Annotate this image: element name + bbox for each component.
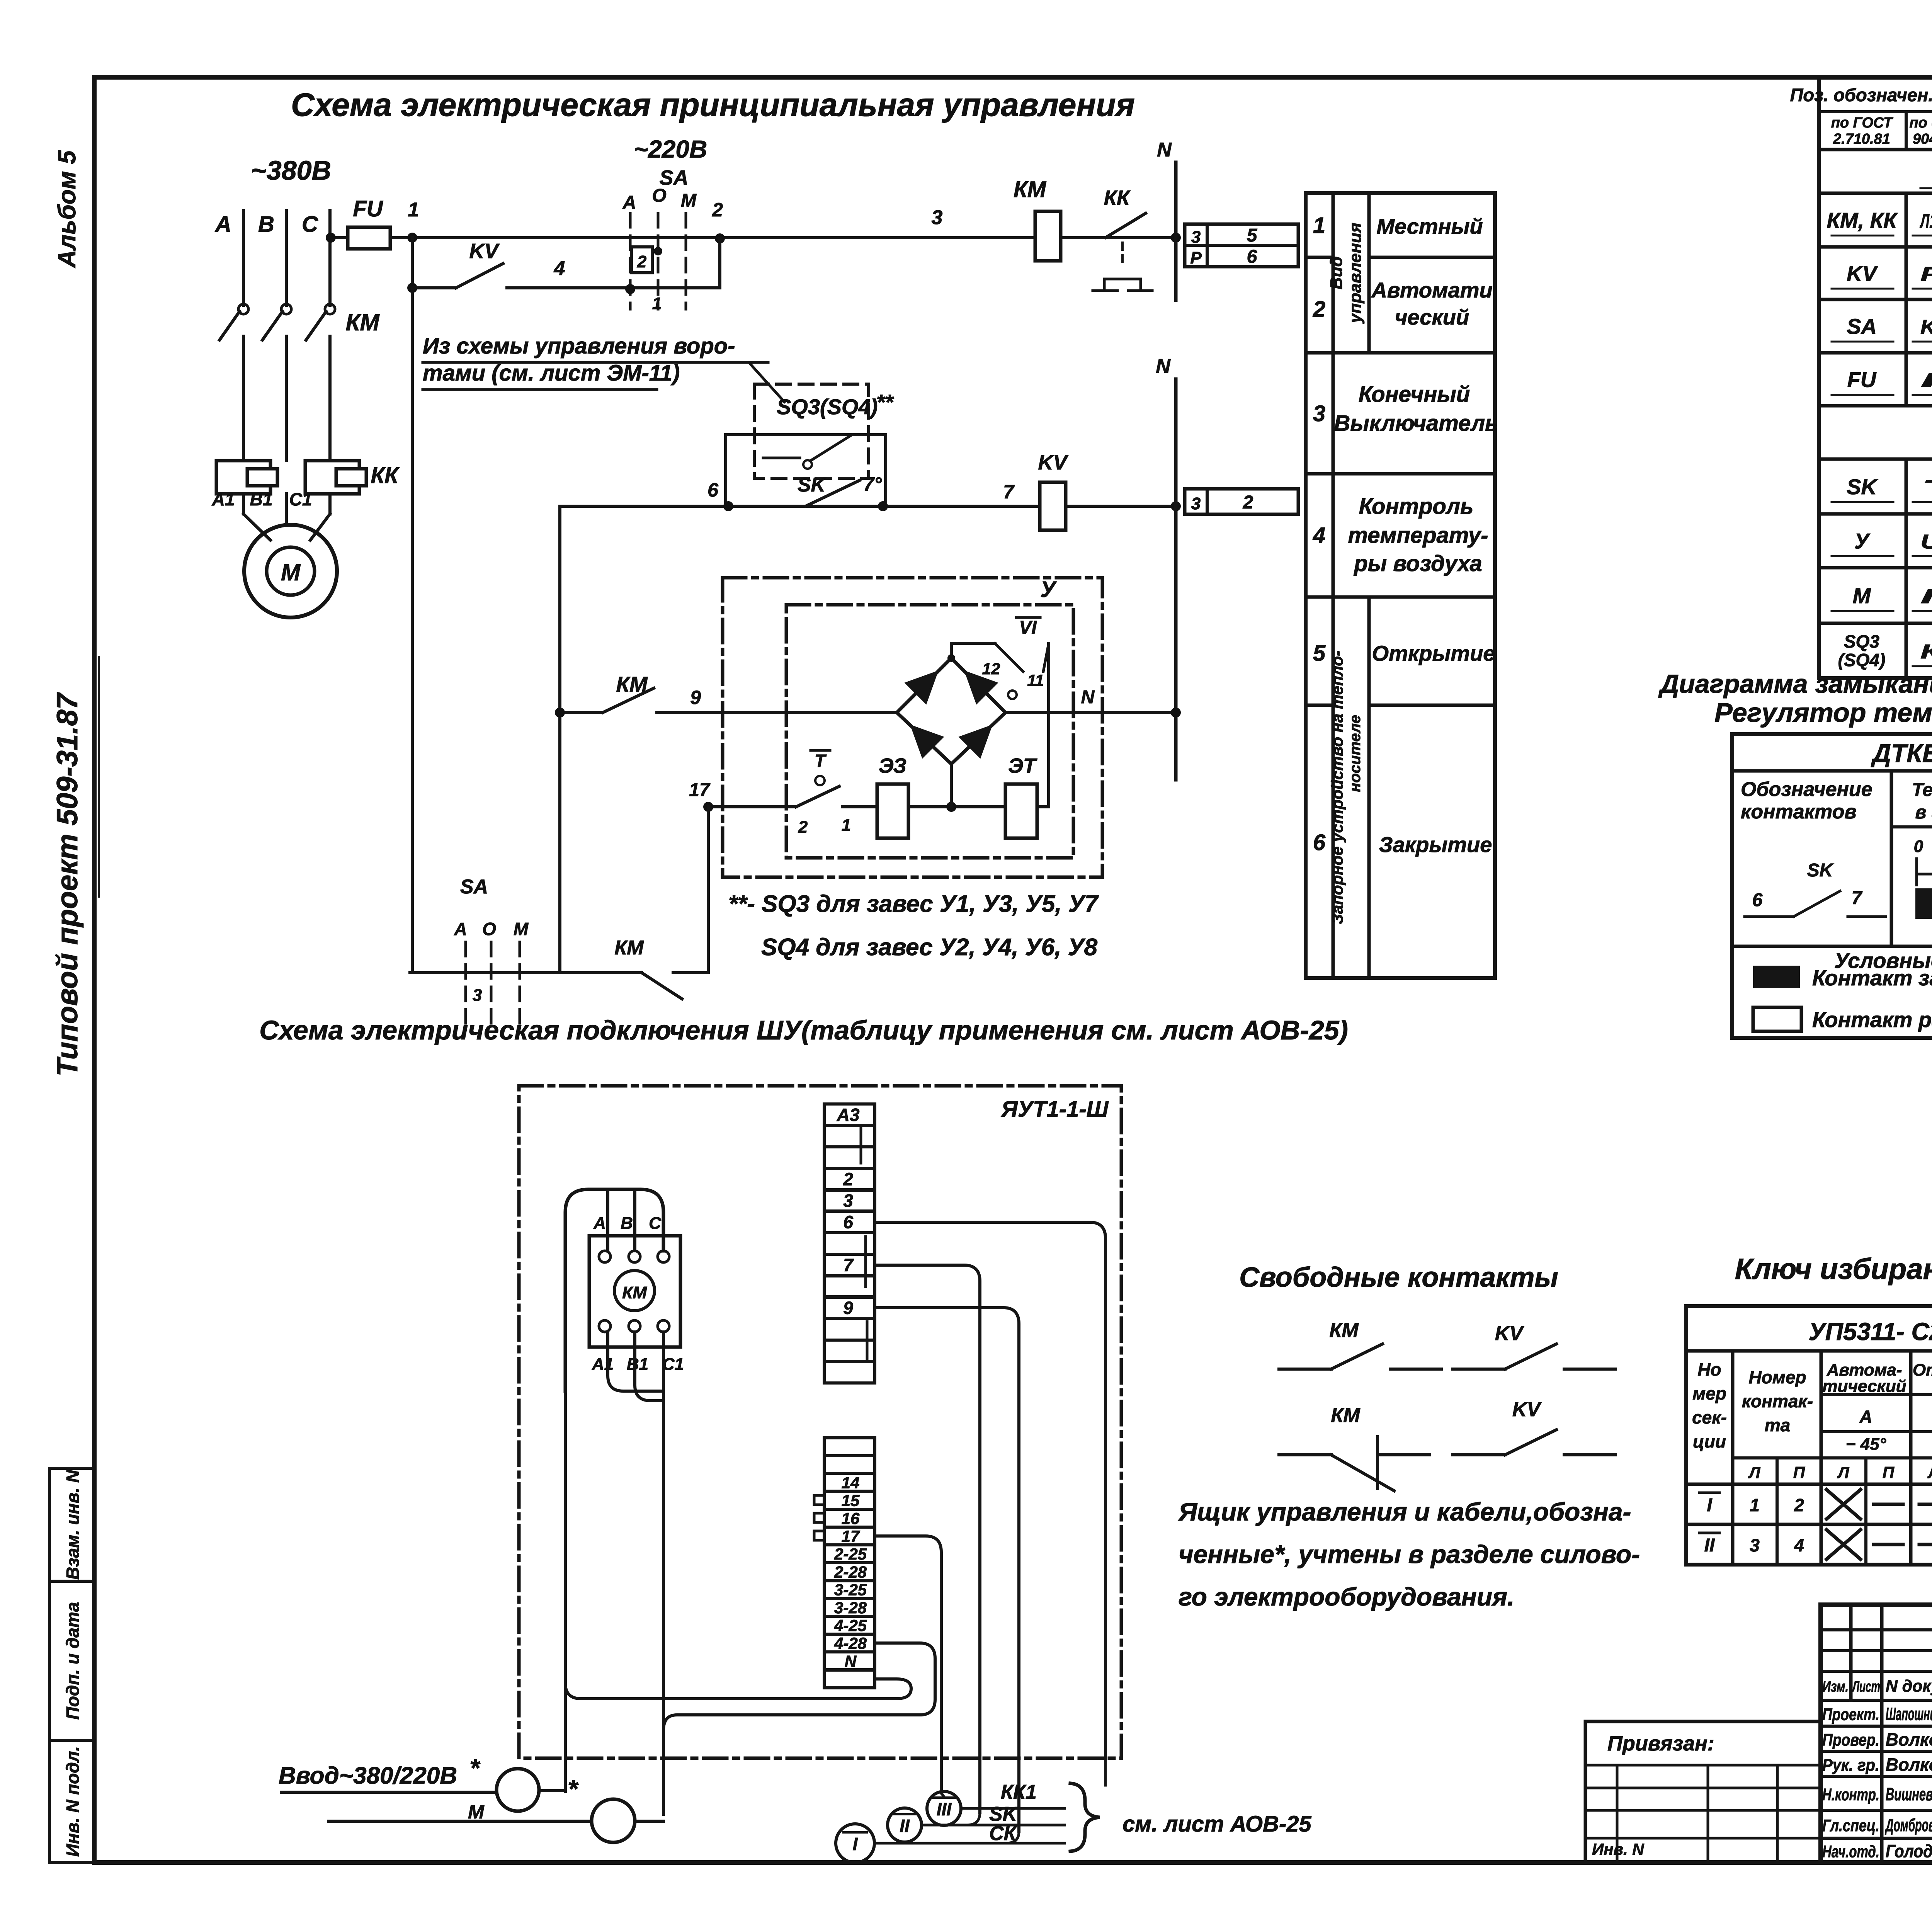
svg-text:Отключе-: Отключе- [1913,1361,1932,1379]
svg-text:КМ: КМ [622,1283,647,1302]
svg-text:2: 2 [798,818,808,837]
svg-text:М: М [468,1801,485,1823]
svg-text:Т: Т [1920,476,1932,499]
svg-text:КМ, КК: КМ, КК [1827,208,1898,233]
svg-text:SK: SK [1807,860,1834,881]
svg-text:Лист: Лист [1852,1678,1880,1695]
svg-text:II: II [1704,1535,1715,1556]
svg-text:FU: FU [353,196,383,221]
svg-text:Схема электрическая подключе: Схема электрическая подключения ШУ(табли… [259,1015,1348,1045]
svg-text:Л1,РТ1: Л1,РТ1 [1919,210,1932,233]
svg-text:1: 1 [652,294,662,313]
svg-text:SK: SK [798,474,827,496]
svg-text:Свободные контакты: Свободные контакты [1239,1262,1558,1293]
svg-text:0: 0 [1914,837,1923,856]
svg-text:17: 17 [842,1527,860,1545]
svg-text:Контроль: Контроль [1359,494,1474,519]
svg-text:12: 12 [982,660,1000,678]
svg-text:Но: Но [1697,1359,1721,1379]
svg-text:КМ: КМ [614,937,644,959]
svg-text:Голодник: Голодник [1886,1841,1932,1861]
svg-text:А1: А1 [212,489,235,509]
svg-text:3: 3 [473,986,482,1005]
svg-text:ры воздуха: ры воздуха [1353,551,1482,576]
svg-text:7°: 7° [863,473,882,495]
svg-text:N: N [845,1652,857,1670]
svg-text:(SQ4): (SQ4) [1838,650,1886,670]
svg-text:КМ: КМ [1014,177,1047,202]
svg-text:в зоне обслуживания: в зоне обслуживания [1915,802,1932,823]
svg-text:~220В: ~220В [634,135,707,163]
svg-text:5: 5 [1313,641,1326,666]
svg-text:ции: ции [1693,1431,1726,1451]
svg-text:2-28: 2-28 [834,1563,867,1581]
svg-text:14: 14 [842,1473,860,1492]
svg-text:15: 15 [842,1492,860,1510]
svg-text:Ввод~380/220В: Ввод~380/220В [279,1762,457,1789]
svg-text:9: 9 [843,1298,853,1318]
svg-text:мер: мер [1692,1383,1726,1403]
svg-text:2: 2 [1794,1495,1804,1515]
svg-text:1: 1 [1313,213,1325,238]
svg-text:7: 7 [1852,888,1863,908]
svg-text:тами (см. лист ЭМ-11): тами (см. лист ЭМ-11) [423,361,680,386]
svg-text:5: 5 [1247,225,1258,246]
svg-text:KV: KV [1512,1398,1542,1421]
svg-text:Диаграмма замыкания контактов.: Диаграмма замыкания контактов. [1658,669,1932,699]
svg-text:М: М [514,919,529,939]
svg-text:Изм.: Изм. [1822,1678,1849,1695]
svg-text:Инв. N: Инв. N [1592,1840,1645,1858]
svg-text:Рук. гр.: Рук. гр. [1822,1756,1879,1775]
svg-text:Волкова: Волкова [1886,1755,1932,1775]
svg-text:Домбровский: Домбровский [1885,1815,1932,1835]
svg-text:по ГОСТ: по ГОСТ [1831,115,1893,131]
svg-text:SA: SA [460,876,488,898]
svg-text:носителе: носителе [1347,715,1364,792]
svg-text:контак-: контак- [1742,1391,1813,1411]
svg-text:SA: SA [1847,314,1877,338]
svg-text:Л: Л [1748,1463,1761,1482]
svg-text:1: 1 [408,199,419,221]
svg-text:КМ: КМ [616,672,648,696]
svg-text:ЯУТ1-1-Ш: ЯУТ1-1-Ш [1001,1097,1109,1122]
svg-text:ческий: ческий [1395,305,1469,329]
svg-text:М: М [681,191,697,211]
svg-text:6: 6 [1752,890,1763,910]
svg-text:А: А [622,192,636,213]
svg-text:по серии: по серии [1910,115,1932,131]
svg-text:FU: FU [1847,367,1877,392]
svg-text:SQ3: SQ3 [1844,631,1879,651]
svg-text:VI: VI [1019,617,1037,638]
svg-text:А: А [1859,1407,1872,1427]
svg-text:О: О [482,919,496,939]
svg-text:2: 2 [1313,297,1325,322]
svg-text:Схема электрическая принципи: Схема электрическая принципиальная управ… [291,87,1135,123]
svg-text:N: N [1156,355,1171,378]
svg-text:Нач.отд.: Нач.отд. [1822,1842,1879,1861]
svg-text:М: М [281,560,301,585]
svg-text:SQ4 для завес У2, У4, У6, У8: SQ4 для завес У2, У4, У6, У8 [761,934,1098,961]
svg-text:ченные*, учтены в разделе сило: ченные*, учтены в разделе силово- [1179,1540,1640,1568]
svg-text:В1: В1 [627,1355,648,1374]
svg-text:3: 3 [1313,401,1325,426]
svg-text:см. лист АОВ-25: см. лист АОВ-25 [1122,1812,1311,1837]
svg-text:управления: управления [1346,223,1365,324]
svg-text:2: 2 [843,1169,853,1189]
svg-text:3: 3 [932,206,943,229]
svg-text:КК1: КК1 [1001,1781,1037,1803]
svg-text:ЭТ: ЭТ [1008,754,1037,777]
svg-text:− 45°: − 45° [1846,1435,1886,1454]
svg-text:ЭЗ: ЭЗ [879,754,906,777]
svg-text:Вид: Вид [1327,256,1346,289]
svg-text:N: N [1081,687,1095,708]
svg-text:KU1: KU1 [1920,316,1932,338]
svg-text:904-02-8: 904-02-8 [1913,131,1932,147]
svg-text:сек-: сек- [1692,1407,1727,1427]
svg-text:Вишневский: Вишневский [1886,1784,1932,1804]
svg-text:Проект.: Проект. [1822,1705,1879,1724]
svg-text:М: М [1853,583,1871,608]
svg-text:А: А [214,212,231,237]
svg-text:16: 16 [842,1509,860,1527]
svg-text:С1: С1 [289,489,312,509]
svg-text:2: 2 [712,199,723,221]
svg-text:**: ** [876,390,894,414]
svg-text:тический: тический [1822,1377,1906,1396]
svg-text:контактов: контактов [1741,801,1857,823]
svg-text:О: О [652,185,666,206]
svg-text:Контакт замкнут: Контакт замкнут [1812,966,1932,990]
svg-text:III: III [937,1799,952,1819]
svg-text:2: 2 [637,252,647,271]
svg-text:М: М [1920,585,1932,608]
svg-text:I: I [1707,1495,1713,1516]
svg-text:6: 6 [1247,247,1257,267]
svg-text:6: 6 [1313,830,1326,855]
svg-text:УП5311- С225: УП5311- С225 [1808,1318,1932,1345]
svg-text:3: 3 [1191,228,1201,247]
svg-text:температу-: температу- [1348,523,1488,548]
svg-text:3-25: 3-25 [834,1581,867,1599]
svg-text:та: та [1765,1415,1790,1435]
svg-text:КК: КК [371,463,400,488]
svg-text:~380В: ~380В [251,155,331,185]
svg-text:А: А [454,919,467,939]
svg-text:2.710.81: 2.710.81 [1833,131,1890,147]
svg-text:Поз. обозначен.: Поз. обозначен. [1790,85,1932,105]
svg-text:Местный: Местный [1376,214,1483,238]
svg-text:Гл.спец.: Гл.спец. [1822,1816,1879,1835]
svg-text:4-28: 4-28 [834,1634,867,1652]
svg-text:2: 2 [1243,492,1253,513]
svg-text:Из схемы управления воро-: Из схемы управления воро- [423,333,735,359]
svg-text:Типовой проект 509-31.87: Типовой проект 509-31.87 [51,692,84,1077]
svg-text:Ключ избирания SA: Ключ избирания SA [1735,1253,1932,1286]
svg-text:П: П [1883,1463,1895,1482]
svg-text:У: У [1854,529,1871,553]
svg-text:КМ: КМ [1329,1319,1359,1342]
svg-text:N: N [1157,139,1172,161]
svg-text:4: 4 [554,257,565,280]
svg-text:Провер.: Провер. [1822,1731,1879,1750]
svg-text:Автомати: Автомати [1371,278,1492,302]
svg-text:6: 6 [707,479,719,501]
svg-text:С: С [302,212,318,237]
svg-text:Л: Л [1837,1463,1850,1482]
svg-text:Инв. N подл.: Инв. N подл. [63,1746,83,1857]
svg-text:*: * [469,1754,481,1782]
svg-text:3: 3 [843,1191,853,1211]
svg-text:Обозначение: Обозначение [1741,778,1872,801]
svg-text:KV: KV [1847,261,1878,286]
svg-text:КМ: КМ [1331,1404,1361,1427]
svg-text:Запорное устройство на тепло-: Запорное устройство на тепло- [1328,651,1346,924]
svg-text:Выключатель: Выключатель [1334,411,1498,436]
svg-text:**- SQ3 для завес У1, У3, У5: **- SQ3 для завес У1, У3, У5, У7 [728,891,1099,917]
svg-text:го электрооборудования.: го электрооборудования. [1179,1582,1514,1611]
svg-text:Открытие: Открытие [1372,641,1495,665]
svg-text:КВ: КВ [1920,641,1932,663]
svg-text:1: 1 [1750,1495,1760,1515]
svg-text:SK: SK [1847,475,1878,499]
svg-text:7: 7 [1003,481,1015,503]
svg-text:Шапошникова: Шапошникова [1886,1704,1932,1724]
svg-text:N докум.: N докум. [1886,1677,1932,1696]
svg-text:4-25: 4-25 [834,1616,867,1635]
svg-text:В: В [258,212,274,237]
svg-text:I: I [853,1834,858,1854]
svg-text:А3: А3 [837,1105,860,1125]
svg-text:3: 3 [1191,494,1201,513]
svg-text:У: У [1040,577,1057,602]
svg-text:РП: РП [1920,263,1932,286]
svg-text:11: 11 [1027,671,1044,689]
svg-text:А1: А1 [592,1355,614,1374]
svg-text:Контакт разомкнут: Контакт разомкнут [1812,1007,1932,1032]
svg-text:4: 4 [1794,1535,1804,1555]
svg-text:6: 6 [843,1212,853,1232]
svg-text:Закрытие: Закрытие [1379,832,1492,857]
svg-text:1: 1 [842,816,851,835]
svg-text:Подп. и дата: Подп. и дата [63,1602,83,1720]
svg-text:В1: В1 [250,489,273,509]
svg-text:П: П [1793,1463,1805,1482]
svg-text:С1: С1 [662,1355,684,1374]
svg-text:KV: KV [1038,451,1068,474]
svg-text:КМ: КМ [346,310,380,335]
svg-text:Температура воздуха: Температура воздуха [1912,780,1932,800]
svg-text:7: 7 [843,1255,854,1275]
svg-text:Т: Т [815,751,827,771]
svg-text:4: 4 [1313,523,1325,548]
svg-text:С: С [649,1214,662,1233]
svg-text:КК: КК [1104,186,1131,209]
svg-text:SQ3(SQ4): SQ3(SQ4) [777,395,878,419]
svg-text:Р: Р [1190,248,1202,267]
svg-text:Взам. инв. N: Взам. инв. N [63,1470,83,1580]
svg-text:II: II [900,1816,910,1836]
svg-text:UM: UM [1920,531,1932,553]
svg-text:В: В [621,1214,633,1233]
svg-text:Регулятор температуры SK: Регулятор температуры SK [1714,697,1932,728]
svg-text:3: 3 [1750,1535,1760,1555]
svg-text:Номер: Номер [1748,1367,1806,1387]
svg-text:9: 9 [690,687,701,708]
svg-text:Конечный: Конечный [1359,382,1470,407]
svg-text:П: П [1920,369,1932,392]
svg-text:17: 17 [689,780,711,800]
svg-text:Альбом 5: Альбом 5 [53,150,81,269]
svg-text:*: * [568,1774,579,1803]
svg-text:Волкова: Волкова [1886,1730,1932,1750]
svg-text:Ящик управления и кабели,обозн: Ящик управления и кабели,обозна- [1178,1497,1631,1526]
svg-text:KV: KV [469,240,500,263]
svg-text:Привязан:: Привязан: [1607,1732,1714,1755]
svg-text:ДТКБ - 53: ДТКБ - 53 [1871,739,1932,767]
svg-text:А: А [593,1214,606,1233]
svg-text:KV: KV [1495,1322,1525,1345]
svg-text:2-25: 2-25 [834,1545,867,1563]
svg-text:Н.контр.: Н.контр. [1822,1785,1879,1804]
svg-text:3-28: 3-28 [834,1599,867,1617]
